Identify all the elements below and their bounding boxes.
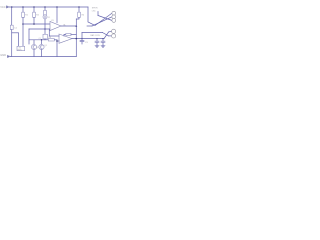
wire	[33, 17, 35, 24]
wire drop x23	[22, 7, 24, 12]
svg-text:R1: R1	[25, 15, 29, 17]
svg-text:R2: R2	[36, 15, 40, 17]
svg-text:4MHz: 4MHz	[17, 49, 22, 51]
svg-text:C3: C3	[85, 42, 89, 44]
wire to op-amp input	[23, 23, 50, 25]
wire drop x45	[44, 7, 46, 10]
capacitor C5	[102, 39, 104, 42]
wire output U1	[61, 25, 76, 27]
wire vertical x29	[28, 29, 30, 44]
wire feedback vertical	[75, 19, 77, 57]
svg-text:R4: R4	[82, 15, 84, 17]
wire bottom rail	[10, 56, 76, 58]
capacitor C4	[96, 39, 98, 42]
wire input U2 upper	[49, 35, 59, 37]
wire crossing to J1	[98, 16, 112, 21]
connector J1 pin2	[112, 15, 116, 19]
op-amp U1 power pin	[56, 7, 58, 23]
resistor R4	[78, 12, 81, 17]
connector J1 pin1	[112, 11, 116, 15]
ground	[101, 46, 105, 48]
wire top rail	[9, 6, 88, 8]
wire	[87, 25, 92, 27]
svg-text:GND: GND	[0, 53, 6, 57]
wire stub	[109, 35, 112, 37]
connector J2 pin1	[112, 29, 116, 33]
wire crystal left lead	[17, 33, 19, 47]
resistor R3	[44, 10, 47, 14]
pin GND	[7, 55, 10, 57]
junction	[102, 38, 103, 39]
junction	[76, 25, 78, 27]
ground	[95, 46, 99, 48]
junction	[44, 28, 46, 30]
svg-text:R6: R6	[49, 37, 51, 39]
wire	[41, 40, 43, 45]
wire	[33, 50, 35, 57]
svg-text:BAT-CON: BAT-CON	[91, 34, 101, 37]
wire	[97, 12, 99, 16]
wire crossing to J1	[92, 17, 112, 26]
wire drop x12	[11, 7, 13, 25]
junction	[96, 38, 97, 39]
wire crossing to J2	[104, 32, 109, 39]
svg-text:Q1: Q1	[44, 45, 47, 47]
svg-text:SPKR: SPKR	[92, 8, 98, 10]
svg-text:LS1: LS1	[92, 10, 97, 12]
resistor R5 feedback	[64, 34, 66, 36]
junction	[56, 40, 58, 42]
resistor R1	[22, 12, 25, 17]
wire to op-amp input lower	[29, 28, 50, 30]
wire output U2	[72, 38, 104, 40]
junction dots on rail	[11, 6, 80, 8]
transistor Q1	[31, 44, 36, 49]
wire	[44, 19, 46, 29]
wire	[41, 50, 43, 57]
wire	[44, 38, 46, 41]
wire vertical from lower wire	[48, 29, 50, 36]
wire vertical x57	[56, 40, 58, 57]
svg-text:U1: U1	[51, 20, 55, 22]
wire drop x34	[33, 7, 35, 12]
svg-text:VCC: VCC	[0, 5, 6, 9]
transistor Q2	[39, 44, 44, 49]
wire rail end drop	[87, 7, 89, 22]
junction	[41, 39, 43, 41]
resistor R2	[33, 12, 36, 17]
wire	[76, 17, 79, 19]
wire to J2	[82, 32, 103, 34]
wire	[54, 39, 57, 41]
wire	[33, 40, 35, 45]
wire crossing to J1	[88, 13, 112, 25]
wire horizontal y39.8	[29, 39, 48, 41]
pin VCC	[6, 6, 9, 8]
wire	[44, 29, 46, 34]
svg-text:Q2: Q2	[36, 47, 39, 49]
connector J2 pin2	[112, 34, 116, 38]
diode D1	[43, 15, 47, 19]
junction	[76, 38, 78, 40]
wire drop x79	[78, 7, 80, 12]
capacitor C3	[81, 38, 82, 39]
wire	[22, 17, 24, 46]
svg-text:C1: C1	[14, 28, 18, 30]
crystal X1	[17, 46, 25, 50]
resistor R6	[48, 39, 54, 41]
capacitor C1	[10, 25, 13, 29]
wire stub	[109, 30, 112, 33]
svg-text:D1: D1	[48, 17, 50, 19]
wire input U2 lower	[57, 40, 59, 42]
op-amp U1	[50, 22, 61, 31]
junction	[22, 23, 24, 25]
wire	[11, 30, 13, 57]
wire branch to crystal	[12, 32, 19, 34]
connector J1 pin3	[112, 19, 116, 23]
capacitor C2	[43, 34, 47, 39]
wire crossing to J2	[103, 33, 109, 36]
junction	[33, 23, 35, 25]
op-amp U2	[59, 34, 72, 43]
